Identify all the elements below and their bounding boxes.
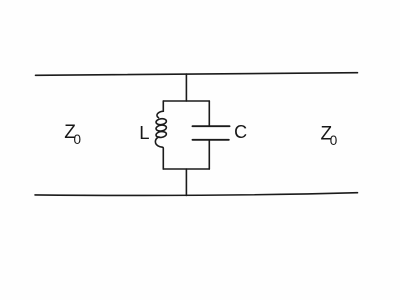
svg-text:L: L <box>139 122 149 143</box>
svg-text:0: 0 <box>74 132 82 147</box>
svg-text:C: C <box>234 122 247 142</box>
svg-text:0: 0 <box>330 133 338 148</box>
